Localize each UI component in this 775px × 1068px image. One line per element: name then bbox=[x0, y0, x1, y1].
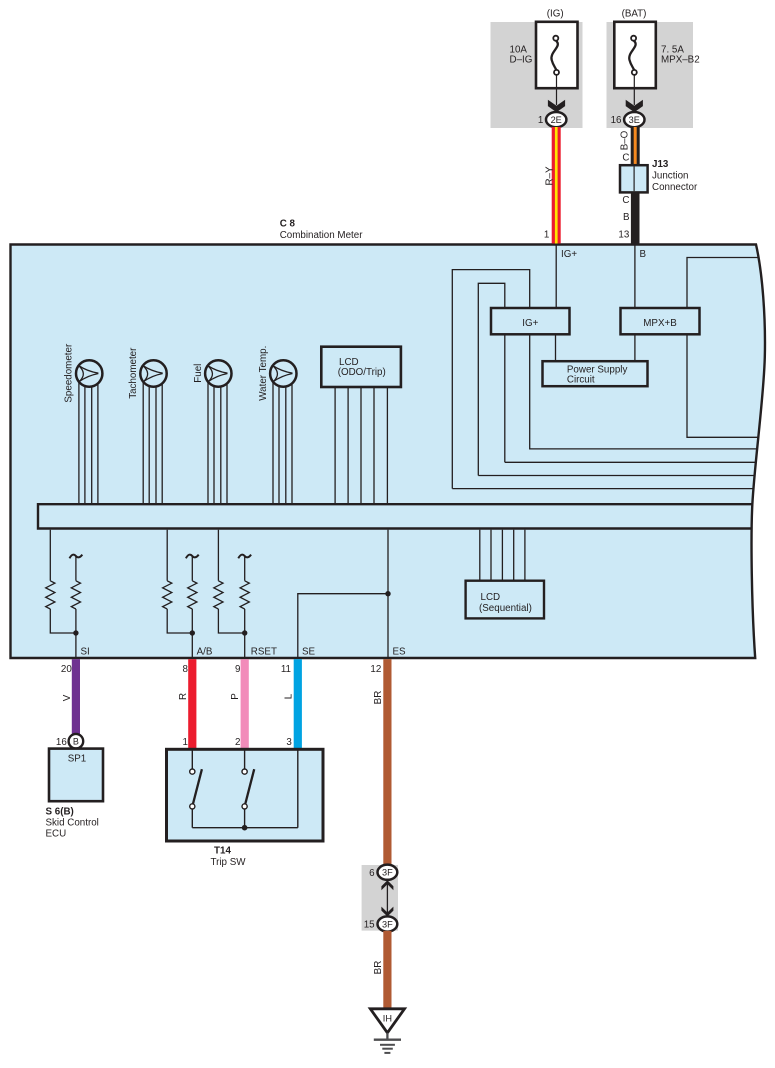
arrow up to 3F-6 bbox=[381, 880, 393, 890]
svg-text:BR: BR bbox=[373, 961, 384, 975]
svg-text:R–Y: R–Y bbox=[545, 166, 556, 186]
fuse block bg (IG) bbox=[491, 22, 583, 128]
wire V bbox=[72, 659, 80, 734]
switch 1 wiring bbox=[191, 751, 193, 828]
svg-text:1: 1 bbox=[544, 230, 549, 241]
tachometer gauge bbox=[140, 360, 166, 386]
pin 15 of 3F bbox=[364, 920, 375, 931]
fuse 7.5A MPX-B2 body bbox=[614, 22, 656, 88]
wire T14 common bottom bbox=[192, 827, 297, 829]
wire MPX+B upper loop bbox=[687, 258, 766, 310]
wire R bbox=[188, 659, 196, 749]
wire inner bracket lower horizontal bbox=[478, 475, 761, 477]
svg-text:B: B bbox=[73, 737, 79, 747]
wire outer bracket left bbox=[452, 270, 529, 489]
wire IG+ box to power supply bbox=[555, 334, 557, 362]
wire R-Y bbox=[552, 127, 561, 244]
ground IH triangle bbox=[370, 1009, 404, 1033]
label C above J13 bbox=[622, 152, 629, 163]
pin 2 of T14 bbox=[235, 737, 240, 748]
bus bar bbox=[38, 504, 756, 528]
svg-text:1: 1 bbox=[538, 115, 543, 126]
pin 13 of C8 B bbox=[618, 230, 629, 241]
wire outer bracket lower horizontal bbox=[452, 488, 760, 490]
label P bbox=[230, 693, 241, 700]
label Water Temp. bbox=[258, 346, 269, 401]
fuse block bg (BAT) bbox=[607, 22, 694, 128]
terminal label B bbox=[640, 249, 647, 260]
svg-text:RSET: RSET bbox=[251, 647, 277, 658]
junction dot T14 bbox=[242, 825, 248, 831]
wire B below J13 bbox=[631, 192, 640, 243]
block SP1 (skid control ECU) bbox=[49, 749, 103, 802]
connector oval 3E bbox=[624, 112, 644, 127]
label (IG) bbox=[547, 9, 564, 20]
combination meter C8 box border bbox=[11, 245, 765, 659]
svg-text:11: 11 bbox=[281, 664, 291, 675]
ground hatch lines bbox=[374, 1040, 401, 1053]
wire MPX+B box to power supply bbox=[634, 334, 636, 362]
water temp gauge bbox=[270, 360, 296, 386]
wire x504 lower segment bbox=[504, 334, 506, 462]
junction dot ES bbox=[385, 591, 390, 596]
connector block 3F bg bbox=[362, 865, 398, 931]
svg-text:R: R bbox=[178, 693, 189, 700]
svg-text:(BAT): (BAT) bbox=[622, 9, 647, 20]
arrow into 2E bbox=[548, 100, 565, 113]
svg-text:P: P bbox=[230, 693, 241, 700]
pin 9 bbox=[235, 664, 240, 675]
svg-text:ES: ES bbox=[393, 647, 407, 658]
wire B terminal drop bbox=[634, 244, 636, 309]
svg-text:9: 9 bbox=[235, 664, 240, 675]
block MPX+B bbox=[621, 308, 700, 334]
label BR upper bbox=[373, 691, 384, 705]
svg-text:1: 1 bbox=[183, 737, 188, 748]
label Tachometer bbox=[128, 347, 139, 399]
label Fuel bbox=[193, 364, 204, 383]
svg-text:C: C bbox=[622, 152, 629, 163]
pin 8 bbox=[183, 664, 189, 675]
wire B-O bbox=[631, 127, 640, 166]
svg-text:C: C bbox=[622, 195, 629, 206]
svg-text:Fuel: Fuel bbox=[193, 364, 204, 383]
arrow into 3E bbox=[626, 100, 643, 113]
pin 20 bbox=[61, 664, 72, 675]
svg-text:MPX–B2: MPX–B2 bbox=[661, 55, 700, 66]
pin 1 of 2E bbox=[538, 115, 543, 126]
label 7.5A MPX-B2 bbox=[661, 45, 700, 66]
label R bbox=[178, 693, 189, 700]
ground stub bbox=[386, 1033, 388, 1040]
terminal label SE bbox=[302, 647, 316, 658]
label Speedometer bbox=[64, 343, 75, 403]
block LCD (ODO/Trip) bbox=[321, 347, 401, 387]
switch 2 wiring bbox=[244, 751, 246, 828]
svg-text:MPX+B: MPX+B bbox=[643, 318, 677, 329]
terminal label SI bbox=[81, 647, 90, 658]
label L bbox=[283, 693, 294, 699]
terminal label ES bbox=[393, 647, 407, 658]
svg-text:(ODO/Trip): (ODO/Trip) bbox=[338, 367, 386, 378]
svg-text:T14: T14 bbox=[214, 845, 231, 856]
resistor group A/B right branch bbox=[186, 555, 199, 658]
wire L bbox=[294, 659, 302, 749]
junction connector J13 bbox=[620, 165, 648, 192]
label V bbox=[62, 694, 73, 701]
svg-text:Connector: Connector bbox=[652, 182, 698, 193]
label B wire bbox=[623, 212, 630, 223]
svg-text:LCD: LCD bbox=[481, 592, 501, 603]
block IG+ bbox=[491, 308, 570, 334]
svg-text:15: 15 bbox=[364, 920, 375, 931]
wire ES bbox=[387, 530, 389, 658]
wire IG+ terminal drop bbox=[555, 244, 557, 309]
label T14 Trip SW bbox=[210, 845, 246, 867]
label BR lower bbox=[373, 961, 384, 975]
label (BAT) bbox=[622, 9, 647, 20]
label R-Y bbox=[545, 166, 556, 186]
speedometer gauge bbox=[76, 360, 102, 386]
water temp wires bbox=[273, 374, 292, 504]
svg-text:Skid Control: Skid Control bbox=[46, 818, 99, 829]
svg-text:S 6(B): S 6(B) bbox=[46, 806, 74, 817]
speedometer wires bbox=[79, 374, 98, 504]
svg-text:IH: IH bbox=[383, 1014, 392, 1024]
resistor group A/B left branch bbox=[163, 530, 193, 633]
svg-text:2: 2 bbox=[235, 737, 240, 748]
svg-text:B: B bbox=[640, 249, 647, 260]
svg-text:6: 6 bbox=[369, 868, 375, 879]
svg-text:16: 16 bbox=[56, 737, 67, 748]
junction dot RSET bbox=[242, 630, 247, 635]
svg-text:Water Temp.: Water Temp. bbox=[258, 346, 269, 401]
LCD ODO/Trip wires bbox=[335, 386, 387, 504]
tachometer wires bbox=[143, 374, 162, 504]
connector oval 2E bbox=[546, 112, 566, 127]
svg-text:20: 20 bbox=[61, 664, 72, 675]
wire inner bracket left bbox=[478, 283, 505, 475]
svg-text:SP1: SP1 bbox=[68, 754, 87, 765]
label S 6(B) Skid Control ECU bbox=[46, 806, 99, 839]
junction dot A/B bbox=[190, 630, 195, 635]
label B-O bbox=[619, 130, 630, 150]
svg-text:L: L bbox=[283, 693, 294, 699]
label C below J13 bbox=[622, 195, 629, 206]
svg-text:ECU: ECU bbox=[46, 829, 67, 840]
arrow down to 3F-15 bbox=[381, 907, 393, 917]
pin 12 bbox=[370, 664, 381, 675]
block LCD (Sequential) bbox=[466, 581, 544, 619]
svg-text:SE: SE bbox=[302, 647, 316, 658]
block Power Supply Circuit bbox=[543, 361, 648, 386]
svg-text:D–IG: D–IG bbox=[510, 55, 533, 66]
svg-text:V: V bbox=[62, 694, 73, 701]
wire MPX+B lower loop bbox=[687, 334, 766, 437]
svg-text:3: 3 bbox=[286, 737, 292, 748]
fuel gauge bbox=[205, 360, 231, 386]
resistor group RSET left branch bbox=[214, 530, 245, 633]
wire x504 lower horizontal bbox=[505, 461, 762, 463]
svg-text:A/B: A/B bbox=[197, 647, 213, 658]
svg-text:3F: 3F bbox=[382, 919, 393, 929]
svg-text:J13: J13 bbox=[652, 159, 669, 170]
connector oval 3F-6 bbox=[378, 865, 398, 880]
svg-text:3E: 3E bbox=[629, 115, 640, 125]
svg-text:Circuit: Circuit bbox=[567, 375, 595, 386]
wire BR lower bbox=[383, 931, 391, 1010]
svg-text:Trip SW: Trip SW bbox=[210, 857, 246, 868]
wire between 3F connectors bbox=[386, 883, 388, 913]
pin 1 of C8 IG+ bbox=[544, 230, 549, 241]
svg-text:Tachometer: Tachometer bbox=[128, 347, 139, 399]
svg-text:IG+: IG+ bbox=[561, 249, 577, 260]
junction dot SI bbox=[73, 630, 78, 635]
terminal label A/B bbox=[197, 647, 213, 658]
wire x529 lower segment bbox=[530, 334, 763, 449]
svg-text:8: 8 bbox=[183, 664, 189, 675]
terminal label RSET bbox=[251, 647, 277, 658]
block T14 Trip SW bbox=[167, 749, 324, 841]
switch 2 blade bbox=[245, 769, 254, 804]
pin 16 of SP1 bbox=[56, 737, 67, 748]
fuse 10A D-IG symbol bbox=[551, 36, 559, 75]
label 10A D-IG bbox=[510, 45, 533, 66]
svg-text:B–O: B–O bbox=[619, 130, 630, 150]
switch 2 contacts bbox=[242, 769, 247, 809]
wire SE bbox=[298, 594, 388, 658]
svg-text:SI: SI bbox=[81, 647, 90, 658]
wire T14 pin3 drop bbox=[297, 751, 299, 828]
svg-text:16: 16 bbox=[611, 115, 622, 126]
label C 8 Combination Meter bbox=[280, 218, 364, 241]
terminal label IG+ bbox=[561, 249, 577, 260]
svg-text:C 8: C 8 bbox=[280, 218, 296, 229]
svg-text:Speedometer: Speedometer bbox=[64, 343, 75, 403]
fuse 7.5A MPX-B2 symbol bbox=[629, 36, 637, 75]
svg-text:(IG): (IG) bbox=[547, 9, 564, 20]
pin 6 of 3F bbox=[369, 868, 375, 879]
svg-text:3F: 3F bbox=[382, 868, 393, 878]
wire P bbox=[241, 659, 249, 749]
LCD Sequential wires bbox=[480, 530, 525, 582]
svg-text:13: 13 bbox=[618, 230, 629, 241]
resistor group SI left branch bbox=[46, 530, 76, 633]
fuel wires bbox=[208, 374, 227, 504]
wire fuse BAT to connector bbox=[633, 75, 635, 105]
svg-text:Junction: Junction bbox=[652, 170, 689, 181]
svg-text:(Sequential): (Sequential) bbox=[479, 603, 532, 614]
svg-text:IG+: IG+ bbox=[522, 318, 538, 329]
svg-text:12: 12 bbox=[370, 664, 381, 675]
svg-text:B: B bbox=[623, 212, 630, 223]
svg-text:BR: BR bbox=[373, 691, 384, 705]
switch 1 contacts bbox=[190, 769, 195, 809]
pin 16 of 3E bbox=[611, 115, 622, 126]
pin 3 of T14 bbox=[286, 737, 292, 748]
pin 11 bbox=[281, 664, 291, 675]
svg-text:2E: 2E bbox=[551, 115, 562, 125]
wire fuse IG to connector bbox=[556, 75, 558, 105]
connector circle B bbox=[69, 734, 84, 749]
svg-text:Combination Meter: Combination Meter bbox=[280, 230, 364, 241]
combination meter C8 box fill bbox=[11, 245, 765, 659]
resistor group SI right branch bbox=[70, 555, 83, 658]
resistor group RSET right branch bbox=[238, 555, 251, 658]
fuse 10A D-IG body bbox=[536, 22, 578, 88]
connector oval 3F-15 bbox=[378, 916, 398, 931]
pin 1 of T14 bbox=[183, 737, 188, 748]
wire BR upper bbox=[383, 659, 391, 865]
switch 1 blade bbox=[193, 769, 202, 804]
label J13 Junction Connector bbox=[652, 159, 698, 193]
